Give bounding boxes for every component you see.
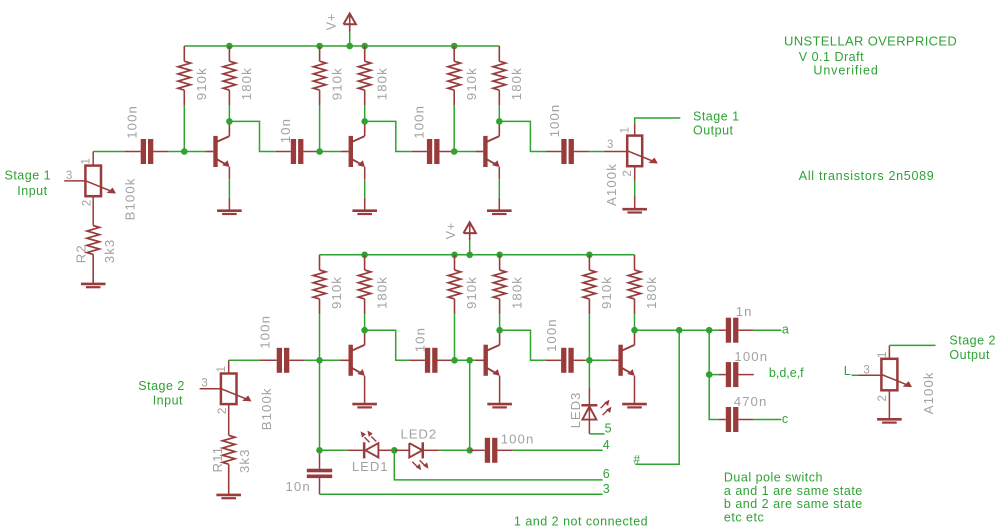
svg-text:1: 1	[877, 352, 889, 358]
value label B100k stage2	[259, 387, 274, 430]
value label 10n	[278, 118, 293, 143]
ground output pot stage2	[877, 419, 902, 422]
note dual pole switch	[724, 470, 863, 524]
wire C input to Q4 base node	[305, 359, 341, 361]
junction node Q3 base	[451, 148, 458, 155]
svg-text:3k3: 3k3	[237, 448, 252, 473]
value label 910k	[194, 67, 209, 100]
wire C input to Q1 base node	[169, 151, 206, 153]
svg-text:B100k: B100k	[123, 177, 138, 220]
svg-text:1 and 2 not connected: 1 and 2 not connected	[514, 515, 648, 529]
capacitor C 10n (stage 1)	[276, 139, 319, 164]
pin 2 label pot1	[82, 200, 94, 206]
junction LED tap node	[466, 357, 473, 364]
value label 910k	[464, 67, 479, 100]
ground Q1 emitter	[217, 211, 242, 214]
wire net 6	[394, 450, 602, 480]
emitter wires (stage 2)	[365, 376, 635, 404]
svg-text:LED3: LED3	[568, 392, 583, 429]
value label 100n	[124, 105, 139, 139]
wire to LED1	[320, 449, 363, 451]
label Stage 2 Input	[138, 379, 185, 407]
svg-text:1n: 1n	[736, 304, 753, 319]
svg-text:100n: 100n	[258, 315, 273, 349]
capacitor 100n LED row	[485, 438, 513, 463]
wire C mid to Q6 base	[585, 359, 610, 361]
pin 3 label pot1	[66, 170, 72, 182]
pin number 3 (output pot stage1)	[607, 139, 613, 151]
pin 2 label pot4	[877, 395, 889, 401]
value label B100k	[123, 177, 138, 220]
svg-text:1: 1	[81, 158, 93, 164]
wire V+ rail stage 2	[320, 254, 635, 256]
pin 1 label pot4	[877, 352, 889, 358]
pin 2 label pot2	[622, 170, 634, 176]
V+ supply symbol (stage 1)	[344, 14, 356, 47]
wire net 3	[320, 493, 603, 495]
potentiometer A100k (stage 2 output)	[852, 345, 913, 418]
svg-text:Output: Output	[693, 124, 734, 138]
transistor Q6 (stage 2)	[610, 330, 634, 376]
wire V+ rail stage 1	[184, 45, 499, 47]
svg-text:Stage 1: Stage 1	[693, 109, 740, 123]
diode LED1	[361, 431, 391, 459]
svg-text:V 0.1 Draft: V 0.1 Draft	[799, 50, 864, 64]
junction node Q1 base	[181, 148, 188, 155]
value label 910k	[464, 276, 479, 309]
value label 180k	[509, 67, 524, 100]
svg-text:L: L	[844, 364, 851, 378]
subtitle Unverified	[813, 64, 878, 78]
svg-text:180k: 180k	[509, 67, 524, 100]
junction dots on stage-1 rail	[226, 43, 457, 50]
svg-text:All transistors 2n5089: All transistors 2n5089	[799, 169, 935, 183]
resistor 180k (stage 1, col 1)	[223, 46, 236, 105]
wire cap 1n to a	[754, 329, 782, 331]
wire: 180k bottoms to collector nodes (stage 2)	[365, 314, 635, 330]
capacitor C 100n mid (stage 2)	[546, 348, 585, 373]
svg-text:Stage 1: Stage 1	[5, 168, 52, 182]
svg-text:B100k: B100k	[259, 387, 274, 430]
capacitor C 100n input (stage 1)	[124, 139, 168, 164]
junction node Q5 base	[451, 357, 458, 364]
pin 1 label pot3	[216, 366, 228, 372]
V+ label (stage 1)	[324, 13, 338, 30]
junction Q4 collector	[361, 327, 368, 334]
ground Q5 emitter	[487, 404, 512, 407]
svg-text:910k: 910k	[194, 67, 209, 100]
transistor Q3 (stage 1)	[475, 121, 499, 167]
diode LED3	[581, 360, 611, 434]
value label 180k	[644, 276, 659, 309]
svg-text:V+: V+	[444, 222, 458, 239]
svg-text:Unverified: Unverified	[813, 64, 878, 78]
value label A100k stage2	[921, 371, 936, 414]
svg-text:UNSTELLAR OVERPRICED: UNSTELLAR OVERPRICED	[784, 34, 957, 49]
V+ supply symbol (stage 2)	[464, 222, 476, 255]
wire: 910k bottoms to base nodes (stage 1)	[184, 105, 454, 151]
svg-text:910k: 910k	[599, 276, 614, 309]
ground Q4 emitter	[352, 404, 377, 407]
svg-text:180k: 180k	[239, 67, 254, 100]
resistor 910k (stage 1, col 4)	[448, 46, 461, 105]
resistor R2 3k3	[87, 226, 100, 284]
wire Q5 collector to C mid stage2	[500, 330, 546, 360]
value label 910k	[329, 67, 344, 100]
junction node Q4 base	[316, 357, 323, 364]
svg-text:10n: 10n	[278, 118, 293, 143]
junction Q1 collector	[226, 118, 233, 125]
junction output cap node	[706, 327, 713, 334]
wire stage 1 output	[635, 118, 681, 124]
svg-text:180k: 180k	[374, 67, 389, 100]
net label L	[844, 364, 851, 378]
capacitor C 100n out (stage 1)	[546, 139, 589, 164]
junction Q2 collector	[361, 118, 368, 125]
value label 180k	[374, 67, 389, 100]
wire Q6 collector to output caps	[635, 329, 710, 331]
svg-text:b,d,e,f: b,d,e,f	[769, 366, 804, 380]
capacitor 10n bottom	[307, 469, 332, 495]
potentiometer A100k (stage 1 output)	[627, 124, 658, 209]
title text	[784, 34, 957, 49]
value 100n LED row	[501, 432, 535, 447]
refdes LED1	[352, 459, 389, 474]
value 100n out	[734, 349, 768, 364]
svg-text:Output: Output	[949, 348, 990, 362]
net label 6	[603, 467, 610, 481]
label Stage 1 Output	[693, 109, 740, 137]
wire down to 470n	[709, 375, 726, 420]
wire LED2 to mid junction	[439, 449, 470, 451]
svg-text:910k: 910k	[464, 276, 479, 309]
wire LED tap down	[469, 360, 471, 450]
svg-text:2: 2	[622, 170, 634, 176]
net label 3	[603, 482, 610, 496]
svg-text:a: a	[782, 323, 789, 337]
transistor Q5 (stage 2)	[476, 330, 500, 376]
svg-text:100n: 100n	[547, 104, 562, 138]
svg-text:910k: 910k	[329, 67, 344, 100]
svg-text:R11: R11	[210, 446, 225, 473]
wire C 10n to Q5 base	[453, 359, 476, 361]
wire to cap 1n	[709, 329, 726, 331]
refdes LED2	[401, 427, 438, 442]
value label 180k	[509, 276, 524, 309]
net label 4	[603, 438, 610, 452]
transistor Q2 (stage 1)	[341, 121, 365, 167]
value 10n bottom	[286, 479, 311, 494]
capacitor 100n out	[726, 362, 754, 387]
refdes R11	[210, 446, 225, 473]
svg-text:100n: 100n	[501, 432, 535, 447]
resistor 180k (stage 2, col 1)	[358, 255, 371, 314]
junction LED row left	[316, 447, 323, 454]
resistor 910k (stage 1, col 0)	[178, 46, 191, 105]
svg-text:5: 5	[605, 422, 612, 436]
value label A100k (stage1)	[604, 163, 619, 206]
resistor 180k (stage 1, col 3)	[358, 46, 371, 105]
junction Q6 collector	[631, 327, 638, 334]
svg-text:3k3: 3k3	[102, 239, 117, 264]
svg-text:Input: Input	[153, 393, 183, 407]
svg-text:470n: 470n	[734, 394, 768, 409]
resistor 910k (stage 2, col 0)	[313, 255, 326, 314]
svg-text:2: 2	[217, 408, 229, 414]
svg-text:180k: 180k	[644, 276, 659, 309]
net label b,d,e,f	[769, 366, 804, 380]
value 1n	[736, 304, 753, 319]
svg-text:1: 1	[216, 366, 228, 372]
svg-text:LED2: LED2	[401, 427, 438, 442]
resistor 910k (stage 2, col 2)	[448, 255, 461, 314]
svg-text:Dual pole switch: Dual pole switch	[724, 470, 823, 484]
svg-text:Stage 2: Stage 2	[949, 333, 996, 347]
svg-text:910k: 910k	[464, 67, 479, 100]
wire C mid to Q3 base	[455, 151, 475, 153]
resistor 180k (stage 1, col 5)	[493, 46, 506, 105]
refdes LED3	[568, 392, 583, 429]
junction dots on stage-2 rail	[361, 252, 592, 259]
svg-text:3: 3	[66, 170, 72, 182]
wire 10n drop	[319, 450, 321, 469]
junction LED row mid	[466, 447, 473, 454]
svg-text:100n: 100n	[411, 105, 426, 139]
net label 5	[605, 422, 612, 436]
diode LED2	[394, 442, 439, 470]
value label 910k	[599, 276, 614, 309]
ground Q3 emitter	[487, 211, 512, 214]
value label 100n	[544, 318, 559, 352]
emitter wires + ground pins (stage 1)	[229, 167, 499, 211]
wire Q2 collector to C 100n mid	[365, 121, 412, 151]
ground R2	[81, 284, 106, 287]
net label #	[633, 452, 640, 466]
capacitor C 100n mid (stage 1)	[412, 139, 455, 164]
value 3k3	[102, 239, 117, 264]
value 3k3	[237, 448, 252, 473]
wire down to 100n tap	[708, 330, 710, 374]
svg-text:a and 1 are same state: a and 1 are same state	[724, 484, 863, 498]
svg-text:100n: 100n	[734, 349, 768, 364]
svg-text:LED1: LED1	[352, 459, 389, 474]
pin 2 label pot3	[217, 408, 229, 414]
svg-text:A100k: A100k	[604, 163, 619, 206]
potentiometer B100k (stage 1 input)	[64, 152, 116, 226]
wire pot3 to C input stage2	[229, 359, 260, 361]
svg-text:4: 4	[603, 438, 610, 452]
transistor Q1 (stage 1)	[205, 121, 229, 167]
svg-text:3: 3	[863, 364, 869, 376]
capacitor C 100n input (stage 2)	[260, 348, 305, 373]
pin 1 label pot2	[620, 127, 632, 133]
V+ label (stage 2)	[444, 222, 458, 239]
refdes R2	[74, 244, 89, 263]
svg-text:1: 1	[620, 127, 632, 133]
resistor 180k (stage 2, col 3)	[493, 255, 506, 314]
svg-text:910k: 910k	[329, 276, 344, 309]
svg-text:10n: 10n	[412, 327, 427, 352]
wire drop to # net	[635, 330, 679, 464]
capacitor C 10n (stage 2)	[410, 348, 453, 373]
svg-text:Stage 2: Stage 2	[138, 379, 185, 393]
net label c	[782, 412, 788, 426]
net label a	[782, 323, 789, 337]
wire Q3 collector to C out	[499, 121, 546, 151]
wire to cap 100n LED row	[470, 449, 485, 451]
svg-text:3: 3	[201, 377, 207, 389]
transistor Q4 (stage 2)	[341, 330, 365, 376]
ground Q6 emitter	[622, 404, 647, 407]
svg-text:3: 3	[603, 482, 610, 496]
ground R11	[216, 495, 241, 498]
junction switch drop	[676, 327, 683, 334]
capacitor 470n	[726, 407, 754, 432]
wire Q1 collector to C 10n	[229, 121, 275, 151]
wire C out to output pot pin3	[589, 151, 627, 153]
svg-text:2: 2	[82, 200, 94, 206]
svg-text:Input: Input	[17, 184, 47, 198]
value label 100n	[547, 104, 562, 138]
value label 100n	[411, 105, 426, 139]
svg-text:2: 2	[877, 395, 889, 401]
value 470n	[734, 394, 768, 409]
pin 3 label pot3	[201, 377, 207, 389]
resistor 910k (stage 1, col 2)	[313, 46, 326, 105]
junction node Q6 base	[586, 357, 593, 364]
svg-text:180k: 180k	[374, 276, 389, 309]
wire Q4 collector to C 10n stage2	[365, 330, 410, 360]
note all transistors	[799, 169, 935, 183]
wire Q4 base node down to LED row	[319, 360, 321, 450]
svg-text:3: 3	[607, 139, 613, 151]
subtitle V 0.1 Draft	[799, 50, 864, 64]
wire stage 2 output	[889, 344, 935, 346]
wire pot1 to C input	[93, 151, 124, 153]
resistor 180k (stage 2, col 5)	[628, 255, 641, 314]
resistor 910k (stage 2, col 4)	[583, 255, 596, 314]
wire: 910k bottoms to base nodes (stage 2)	[320, 314, 590, 360]
wire C 10n to Q2 base	[319, 151, 341, 153]
junction 100n tap	[706, 371, 713, 378]
svg-text:#: #	[633, 452, 640, 466]
capacitor 1n	[726, 318, 754, 343]
wire net 4	[513, 449, 603, 451]
ground output pot stage1	[622, 209, 647, 212]
svg-text:6: 6	[603, 467, 610, 481]
potentiometer B100k (stage 2 input)	[200, 360, 252, 435]
wire to cap 100n out	[709, 374, 726, 376]
wire net 5	[589, 433, 604, 435]
svg-text:180k: 180k	[509, 276, 524, 309]
value label 100n	[258, 315, 273, 349]
svg-text:A100k: A100k	[921, 371, 936, 414]
wire cap 470n to c	[754, 419, 782, 421]
junction Q3 collector	[496, 118, 503, 125]
value label 180k	[239, 67, 254, 100]
junction LED1-LED2	[391, 447, 398, 454]
svg-text:V+: V+	[324, 13, 338, 30]
svg-text:etc etc: etc etc	[724, 510, 764, 524]
note 1 and 2 not connected	[514, 515, 648, 529]
label Stage 1 Input	[5, 168, 52, 198]
wire: 180k bottoms to collector nodes (stage 1)	[229, 105, 499, 121]
svg-text:R2: R2	[74, 244, 89, 263]
pin 3 label pot4	[863, 364, 869, 376]
label Stage 2 Output	[949, 333, 996, 362]
junction node Q2 base	[316, 148, 323, 155]
svg-text:100n: 100n	[124, 105, 139, 139]
pin 1 label pot1	[81, 158, 93, 164]
svg-text:10n: 10n	[286, 479, 311, 494]
ground Q2 emitter	[352, 211, 377, 214]
junction Q5 collector	[496, 327, 503, 334]
svg-text:b and 2 are same state: b and 2 are same state	[724, 497, 863, 511]
svg-text:c: c	[782, 412, 788, 426]
svg-text:100n: 100n	[544, 318, 559, 352]
resistor R11 3k3	[222, 435, 235, 495]
value label 910k	[329, 276, 344, 309]
value label 10n	[412, 327, 427, 352]
value label 180k	[374, 276, 389, 309]
